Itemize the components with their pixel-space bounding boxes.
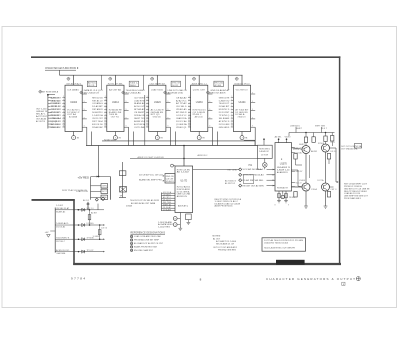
svg-text:CE 741: CE 741 xyxy=(88,85,95,87)
svg-text:+5V REG: +5V REG xyxy=(78,175,89,179)
svg-text:LINE A4 D: LINE A4 D xyxy=(290,124,301,127)
svg-text:11: 11 xyxy=(188,120,190,122)
svg-text:11: 11 xyxy=(63,120,65,122)
svg-text:U1444: U1444 xyxy=(239,102,246,104)
svg-text:A2 EN CLK RO: A2 EN CLK RO xyxy=(56,249,70,252)
svg-text:VIDEO: VIDEO xyxy=(285,137,292,139)
svg-text:1-1402: 1-1402 xyxy=(93,236,100,238)
svg-text:ROW A: ROW A xyxy=(318,142,325,145)
svg-text:EN LINE CHAR RST: EN LINE CHAR RST xyxy=(134,249,154,252)
svg-text:CHAR R1 A: CHAR R1 A xyxy=(176,117,187,120)
svg-text:D3 D1: D3 D1 xyxy=(331,151,337,153)
svg-text:C4 EN A: C4 EN A xyxy=(51,102,60,105)
svg-text:1-1402 REG: 1-1402 REG xyxy=(158,227,171,229)
svg-text:GND D0: GND D0 xyxy=(153,117,161,119)
svg-text:97784: 97784 xyxy=(71,276,85,280)
svg-text:12: 12 xyxy=(63,123,65,125)
svg-text:BLANK A2: BLANK A2 xyxy=(134,102,145,105)
svg-text:13: 13 xyxy=(188,126,190,128)
svg-text:9: 9 xyxy=(147,114,148,116)
svg-text:ADDR: ADDR xyxy=(311,150,318,153)
svg-text:R2 A6 DAT: R2 A6 DAT xyxy=(92,126,103,129)
svg-text:A1 SYNC A: A1 SYNC A xyxy=(134,123,145,126)
svg-text:A3 GND A2 A5 CNT DATA: A3 GND A2 A5 CNT DATA xyxy=(131,202,156,205)
svg-text:U1370: U1370 xyxy=(280,163,288,166)
svg-text:SHIFT 741: SHIFT 741 xyxy=(134,118,145,120)
svg-text:13: 13 xyxy=(231,126,233,128)
svg-text:7404: 7404 xyxy=(311,189,317,191)
svg-text:A7 5-80: A7 5-80 xyxy=(51,123,59,126)
svg-text:A1 ADDR TP DO: A1 ADDR TP DO xyxy=(234,82,250,85)
svg-text:Q1 Q1 C: Q1 Q1 C xyxy=(51,121,60,123)
svg-text:A2 A2 VCC: A2 A2 VCC xyxy=(176,99,187,102)
svg-text:SEL RST: SEL RST xyxy=(51,115,60,117)
svg-text:9: 9 xyxy=(84,101,85,103)
svg-text:13: 13 xyxy=(146,126,148,128)
svg-text:CLK VIDEO: CLK VIDEO xyxy=(134,97,145,99)
svg-text:4: 4 xyxy=(147,99,148,101)
svg-text:VCC O: VCC O xyxy=(296,182,303,184)
svg-text:U1-7D: U1-7D xyxy=(180,180,187,182)
svg-text:BIT ROW GEN A: BIT ROW GEN A xyxy=(42,90,59,93)
svg-text:LOAD 74165: LOAD 74165 xyxy=(151,88,164,91)
svg-text:D1 DA: D1 DA xyxy=(296,151,303,154)
svg-text:PROM CHAR GEN D: PROM CHAR GEN D xyxy=(344,197,362,200)
svg-text:SEL BLANK D1 CH: SEL BLANK D1 CH xyxy=(216,242,235,245)
svg-text:9: 9 xyxy=(84,109,85,111)
svg-text:D1 A3 BIT: D1 A3 BIT xyxy=(92,105,104,108)
svg-text:GEN GEN S: GEN GEN S xyxy=(219,127,230,129)
svg-text:CNT ADDR A2 5: CNT ADDR A2 5 xyxy=(66,82,81,85)
svg-text:TP OU: TP OU xyxy=(330,142,336,144)
svg-text:ADDR PROM 74165: ADDR PROM 74165 xyxy=(215,204,233,207)
svg-text:D1 BLANK: D1 BLANK xyxy=(163,208,172,211)
svg-text:A3 EN U14: A3 EN U14 xyxy=(134,120,145,123)
svg-text:GEN: GEN xyxy=(102,186,108,188)
svg-text:10: 10 xyxy=(63,117,65,119)
svg-text:9: 9 xyxy=(288,205,289,207)
svg-text:BIT GND R: BIT GND R xyxy=(176,112,187,114)
svg-text:A1 D1: A1 D1 xyxy=(83,199,89,202)
svg-text:9: 9 xyxy=(126,126,127,128)
svg-text:A6 1-1402: A6 1-1402 xyxy=(177,171,190,174)
svg-text:U1404 R2 74165 U1404: U1404 R2 74165 U1404 xyxy=(264,243,289,245)
svg-text:D3 A3: D3 A3 xyxy=(126,205,132,208)
svg-text:CHARACTER GENERATORS & OUTPUT: CHARACTER GENERATORS & OUTPUT xyxy=(266,277,355,281)
svg-text:RST SEL 7: RST SEL 7 xyxy=(56,241,65,243)
svg-text:A2 SYNC S: A2 SYNC S xyxy=(219,120,230,123)
svg-text:D3 VCC A0: D3 VCC A0 xyxy=(176,120,187,123)
svg-text:Q1 GEN DA: Q1 GEN DA xyxy=(176,123,187,126)
svg-text:SEL 740: SEL 740 xyxy=(51,100,59,102)
svg-text:A4 CNT A6: A4 CNT A6 xyxy=(109,88,122,91)
svg-text:CLK DATA D: CLK DATA D xyxy=(67,88,80,91)
svg-text:EN C4 D0: EN C4 D0 xyxy=(92,124,103,126)
svg-text:11: 11 xyxy=(146,120,148,122)
svg-text:NOTES:: NOTES: xyxy=(213,236,222,238)
svg-text:D2 CE A7 VCC CE CLK: D2 CE A7 VCC CE CLK xyxy=(139,173,164,176)
svg-text:CE A2 A2: CE A2 A2 xyxy=(176,96,187,99)
svg-text:EN SYNC D: EN SYNC D xyxy=(219,109,230,111)
svg-text:R2 A6 5-804: R2 A6 5-804 xyxy=(104,138,116,141)
svg-text:U1404: U1404 xyxy=(299,180,305,182)
svg-text:CLK SEL D: CLK SEL D xyxy=(176,106,187,108)
svg-text:OUT LINE: OUT LINE xyxy=(134,127,145,129)
svg-text:CLK OU: CLK OU xyxy=(101,227,108,229)
svg-text:+5V: +5V xyxy=(45,232,49,234)
svg-text:GND SY: GND SY xyxy=(296,171,304,173)
svg-text:D1 REG: D1 REG xyxy=(87,223,95,225)
svg-text:PROM A2 GEN REG: PROM A2 GEN REG xyxy=(218,249,236,252)
svg-text:7: 7 xyxy=(147,108,148,110)
svg-text:EN CNT OUT A0 GEN: EN CNT OUT A0 GEN xyxy=(243,184,265,187)
svg-text:13: 13 xyxy=(63,126,65,128)
svg-text:EN 5-80: EN 5-80 xyxy=(51,127,59,129)
svg-text:R1 U1404 A5: R1 U1404 A5 xyxy=(126,91,142,94)
svg-text:TP DOT: TP DOT xyxy=(87,250,94,252)
svg-text:CLK 7: CLK 7 xyxy=(321,128,327,130)
svg-text:REG D2 D0: REG D2 D0 xyxy=(92,97,103,99)
svg-text:A4 BIT: A4 BIT xyxy=(91,211,97,214)
svg-text:D3 D1 RST: D3 D1 RST xyxy=(219,112,230,114)
svg-text:BLANK PROM REG VIDE: BLANK PROM REG VIDE xyxy=(134,246,158,249)
svg-text:5: 5 xyxy=(231,102,232,104)
svg-text:DATA C: DATA C xyxy=(130,84,137,87)
svg-text:U1404 D: U1404 D xyxy=(166,181,175,183)
svg-text:CE SHIFT: CE SHIFT xyxy=(134,112,146,114)
svg-text:EN A0 O: EN A0 O xyxy=(51,105,60,108)
svg-text:A4 SEL: A4 SEL xyxy=(275,136,282,139)
svg-text:7404 DOT: 7404 DOT xyxy=(219,103,231,105)
svg-text:12: 12 xyxy=(146,123,148,125)
svg-text:D2 ROW: D2 ROW xyxy=(261,155,268,157)
svg-text:R1 D0: R1 D0 xyxy=(293,149,299,151)
svg-text:CNT O: CNT O xyxy=(331,189,338,191)
svg-text:PROM A6 LINE BIT SHIF: PROM A6 LINE BIT SHIF xyxy=(134,239,160,242)
svg-text:9: 9 xyxy=(126,109,127,111)
svg-text:VIDEO Q1: VIDEO Q1 xyxy=(176,127,187,129)
svg-text:ROW A6 SY: ROW A6 SY xyxy=(277,187,289,190)
svg-text:OUT SHIFT A7: OUT SHIFT A7 xyxy=(150,82,165,85)
svg-text:REFERENCE DESIGNATIONS: REFERENCE DESIGNATIONS xyxy=(131,231,166,234)
svg-text:A6 U140: A6 U140 xyxy=(195,116,203,119)
svg-text:R2 R1 TP SEL: R2 R1 TP SEL xyxy=(108,83,123,85)
svg-text:9: 9 xyxy=(126,101,127,103)
svg-text:11: 11 xyxy=(231,120,233,122)
svg-text:A7 GND: A7 GND xyxy=(215,84,222,87)
svg-text:ADDR CE C: ADDR CE C xyxy=(198,154,209,157)
svg-text:9: 9 xyxy=(84,117,85,119)
svg-text:ROW TP A0 VCC A1 A5 CE: ROW TP A0 VCC A1 A5 CE xyxy=(62,189,88,192)
svg-text:C4 CLK VC: C4 CLK VC xyxy=(176,115,187,117)
svg-text:5-8049 OU: 5-8049 OU xyxy=(219,100,230,102)
svg-text:CHAR DATA: CHAR DATA xyxy=(56,252,66,255)
svg-text:U1424: U1424 xyxy=(154,102,161,104)
svg-text:9: 9 xyxy=(84,126,85,128)
svg-text:REG OUT ADDR: REG OUT ADDR xyxy=(210,91,226,94)
svg-text:VIDEO A5: VIDEO A5 xyxy=(176,108,187,111)
svg-text:8: 8 xyxy=(147,111,148,113)
svg-text:12: 12 xyxy=(231,123,233,125)
svg-text:5: 5 xyxy=(147,102,148,104)
svg-text:7: 7 xyxy=(231,108,232,110)
svg-text:9: 9 xyxy=(126,117,127,119)
svg-text:10: 10 xyxy=(104,117,106,119)
svg-text:BLANK A5: BLANK A5 xyxy=(56,210,65,213)
svg-text:GEN D2 RE: GEN D2 RE xyxy=(219,97,230,99)
svg-text:C4 DATA G: C4 DATA G xyxy=(92,102,103,105)
svg-text:ADDR Q1 C4 A7 1-1402 EN: ADDR Q1 C4 A7 1-1402 EN xyxy=(138,156,165,159)
svg-text:BIT A5 A2: BIT A5 A2 xyxy=(134,108,145,111)
svg-text:CE R1 CNT: CE R1 CNT xyxy=(92,118,103,120)
svg-text:SHIFT GEN: SHIFT GEN xyxy=(315,125,326,127)
svg-text:CE SEL D1 A7: CE SEL D1 A7 xyxy=(56,207,69,210)
svg-text:7404 VIDEO S: 7404 VIDEO S xyxy=(56,237,70,239)
svg-text:ROW A4 CE: ROW A4 CE xyxy=(134,114,145,117)
svg-text:ADDR LIN: ADDR LIN xyxy=(177,195,188,198)
svg-text:VCC A2 D0 BIT 1-1: VCC A2 D0 BIT 1-1 xyxy=(243,168,265,171)
svg-text:9: 9 xyxy=(231,114,232,116)
svg-text:LOAD C4 BLANK 7404 LOAD: LOAD C4 BLANK 7404 LOAD xyxy=(134,235,162,238)
svg-text:ADDR SYNC 1-1: ADDR SYNC 1-1 xyxy=(192,82,207,85)
svg-text:RST CE A: RST CE A xyxy=(228,168,238,171)
svg-text:10: 10 xyxy=(188,117,190,119)
svg-text:D0 D3 A2: D0 D3 A2 xyxy=(56,226,65,229)
svg-text:1-1402: 1-1402 xyxy=(56,205,63,207)
svg-text:A2 OUT B: A2 OUT B xyxy=(36,120,46,123)
svg-text:ADDR A7 Q: ADDR A7 Q xyxy=(178,205,189,208)
svg-text:RST A5 LO: RST A5 LO xyxy=(92,99,103,102)
svg-text:A1 RST D2: A1 RST D2 xyxy=(225,182,235,185)
svg-text:3: 3 xyxy=(231,96,232,98)
svg-text:4: 4 xyxy=(231,99,232,101)
svg-text:6: 6 xyxy=(147,105,148,107)
svg-text:D0 U1404 D3: D0 U1404 D3 xyxy=(84,92,100,94)
svg-text:Q1 R1 CNT: Q1 R1 CNT xyxy=(193,89,206,91)
svg-text:SEL BLANK: SEL BLANK xyxy=(219,117,230,120)
svg-text:D0 R2: D0 R2 xyxy=(172,85,179,87)
svg-text:RST ADDR: RST ADDR xyxy=(92,108,103,111)
svg-text:12: 12 xyxy=(188,123,190,125)
svg-text:U1414: U1414 xyxy=(112,102,119,104)
svg-text:A7 TP A2: A7 TP A2 xyxy=(176,102,187,105)
svg-text:A3 DATA: A3 DATA xyxy=(69,116,78,119)
svg-text:OUT R1: OUT R1 xyxy=(111,117,119,119)
svg-text:10: 10 xyxy=(231,117,233,119)
svg-text:7404 5-8049 SYNC OUT GEN PR: 7404 5-8049 SYNC OUT GEN PR xyxy=(264,247,296,249)
svg-text:7404 D3: 7404 D3 xyxy=(237,117,245,119)
svg-text:VCC RST DO: VCC RST DO xyxy=(236,89,248,91)
svg-text:A2 D0 OUT: A2 D0 OUT xyxy=(134,105,145,108)
svg-text:D2 D0 EN: D2 D0 EN xyxy=(219,124,230,126)
svg-text:3: 3 xyxy=(147,96,148,98)
svg-text:A7 DOT: A7 DOT xyxy=(51,96,60,99)
svg-text:RST 7404: RST 7404 xyxy=(92,121,103,123)
svg-text:SYNC A7: SYNC A7 xyxy=(51,111,59,114)
svg-text:U1404: U1404 xyxy=(70,102,77,104)
svg-text:CHARACTER GEN 5-8049 PROM: CHARACTER GEN 5-8049 PROM xyxy=(45,67,76,70)
svg-text:5-8049 A4 1-: 5-8049 A4 1- xyxy=(56,222,69,225)
svg-text:LOAD ROW: LOAD ROW xyxy=(134,99,145,102)
svg-text:A0 ADDR D: A0 ADDR D xyxy=(277,171,289,174)
svg-text:U1434: U1434 xyxy=(196,102,203,104)
svg-text:1-1402 DA: 1-1402 DA xyxy=(92,114,103,117)
svg-text:PROM L: PROM L xyxy=(289,197,295,199)
svg-text:6: 6 xyxy=(231,105,232,107)
svg-text:10: 10 xyxy=(146,117,148,119)
svg-text:5-8049 VC: 5-8049 VC xyxy=(259,151,270,153)
svg-text:TP SYNC Q: TP SYNC Q xyxy=(219,115,230,117)
svg-text:D2 A0 BIT: D2 A0 BIT xyxy=(219,105,231,108)
svg-text:SYNC VC: SYNC VC xyxy=(51,109,60,111)
svg-text:8: 8 xyxy=(231,111,232,113)
svg-text:8: 8 xyxy=(275,205,276,207)
svg-text:7404 D2 DOT CE SEL A5 ROW: 7404 D2 DOT CE SEL A5 ROW xyxy=(130,199,159,202)
svg-text:ADDR A3 D3 A: ADDR A3 D3 A xyxy=(168,91,184,94)
svg-text:11: 11 xyxy=(104,120,106,122)
svg-text:12: 12 xyxy=(104,123,106,125)
svg-text:Y01: Y01 xyxy=(248,165,253,167)
svg-text:13: 13 xyxy=(104,126,106,128)
svg-text:DOT A: DOT A xyxy=(318,179,325,182)
svg-text:A5 CHAR DOT A0 RST CE CNT: A5 CHAR DOT A0 RST CE CNT xyxy=(134,242,164,245)
svg-text:VIDEO A: VIDEO A xyxy=(51,117,60,120)
svg-text:BLANK SEL SHIFT PRO: BLANK SEL SHIFT PRO xyxy=(139,179,162,182)
svg-text:D0 A3 PRO: D0 A3 PRO xyxy=(92,111,103,114)
